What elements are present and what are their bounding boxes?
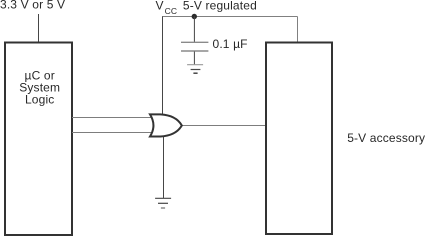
ground for capacitor (187, 64, 203, 66)
wire 3.3V supply into uC box (38, 14, 40, 43)
wire capacitor top lead (193, 17, 195, 43)
capacitor 0.1 uF (181, 41, 208, 43)
svg-text:5-V regulated: 5-V regulated (183, 0, 257, 13)
svg-text:5-V accessory: 5-V accessory (347, 131, 425, 145)
wire gate output to accessory (182, 125, 267, 127)
svg-text:CC: CC (165, 6, 178, 16)
svg-text:V: V (156, 0, 164, 13)
wire VCC down to gate power pin (162, 17, 164, 116)
wire gate ground pin (163, 136, 165, 198)
ground for gate (155, 197, 171, 199)
svg-text:3.3 V or 5 V: 3.3 V or 5 V (0, 0, 65, 12)
wire VCC down to 5-V accessory box (297, 17, 299, 45)
wire gate input B from uC (72, 132, 154, 134)
junction dot at capacitor tap (192, 14, 197, 19)
OR gate buffer (150, 114, 182, 136)
wire gate input A from uC (72, 117, 154, 119)
uC or System Logic block (5, 43, 72, 236)
wire VCC rail horizontal (162, 16, 298, 18)
5-V accessory block (266, 43, 332, 235)
svg-text:0.1 µF: 0.1 µF (213, 37, 248, 51)
svg-text:Logic: Logic (25, 93, 54, 107)
wire capacitor bottom lead (193, 52, 195, 65)
